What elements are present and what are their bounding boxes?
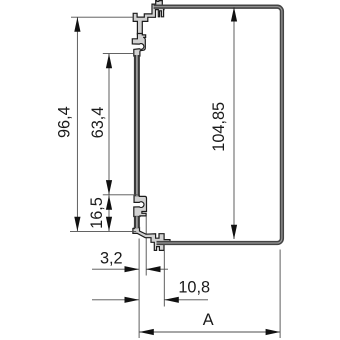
extension line x280 (A right) xyxy=(279,250,281,339)
extension line x164 (10,8 right) xyxy=(163,251,165,307)
dimension 104,85 arrow up xyxy=(231,7,237,22)
left wall band light core xyxy=(136,55,138,228)
extension line bottom (96,4 / 16,5) xyxy=(70,230,136,232)
dimension 63,4 arrow down xyxy=(106,180,112,195)
svg-text:3,2: 3,2 xyxy=(100,250,123,268)
dimension 16,5 arrow up xyxy=(106,195,112,210)
lower screw-channel hook xyxy=(134,196,147,217)
dimension 10,8 right tail xyxy=(164,299,208,301)
dimension A line xyxy=(139,331,280,333)
top tab notch xyxy=(157,0,159,2)
dimension 96,4 arrow up xyxy=(74,17,80,32)
dimension 3,2 left tail xyxy=(92,268,139,270)
bottom-left corner profile detail xyxy=(133,228,170,251)
extension line top (96,4) xyxy=(71,16,133,18)
upper screw-channel hook xyxy=(132,34,145,57)
dimension 10,8 left arrow xyxy=(125,297,140,303)
dimension 10,8 right arrow xyxy=(164,297,179,303)
extension line x146 (3,2 right) xyxy=(145,217,147,276)
dimension A right arrow xyxy=(266,329,281,335)
dimension 63,4 line xyxy=(108,54,110,195)
dimension 16,5 line xyxy=(108,195,110,231)
dimension 3,2 right arrow xyxy=(146,266,161,272)
extension line 63,4 bottom xyxy=(103,194,138,196)
extension line x139 (A / 10,8 / 3,2 left) xyxy=(138,239,140,339)
svg-text:A: A xyxy=(203,311,214,329)
dimension 96,4 line xyxy=(76,17,78,231)
enclosure thin wall dark band (top, right, bottom) xyxy=(154,7,282,243)
extension line 63,4 top xyxy=(103,53,134,55)
dimension 104,85 line xyxy=(233,7,235,239)
svg-text:96,4: 96,4 xyxy=(56,106,74,138)
svg-text:104,85: 104,85 xyxy=(210,102,228,152)
dimension 3,2 right tail xyxy=(146,268,168,270)
dimension 96,4 arrow down xyxy=(74,217,80,232)
dimension 16,5 arrow down xyxy=(106,217,112,232)
svg-text:63,4: 63,4 xyxy=(89,107,107,139)
dimension 3,2 left arrow xyxy=(125,266,140,272)
dimension 10,8 left tail xyxy=(92,299,139,301)
svg-text:16,5: 16,5 xyxy=(88,197,106,229)
left wall dark band xyxy=(134,55,140,228)
wall band light core xyxy=(154,7,282,243)
dimension A left arrow xyxy=(139,329,154,335)
dimension 104,85 arrow down xyxy=(231,225,237,240)
dimension 63,4 arrow up xyxy=(106,54,112,69)
top-left corner profile detail xyxy=(133,1,164,35)
svg-text:10,8: 10,8 xyxy=(178,278,210,296)
